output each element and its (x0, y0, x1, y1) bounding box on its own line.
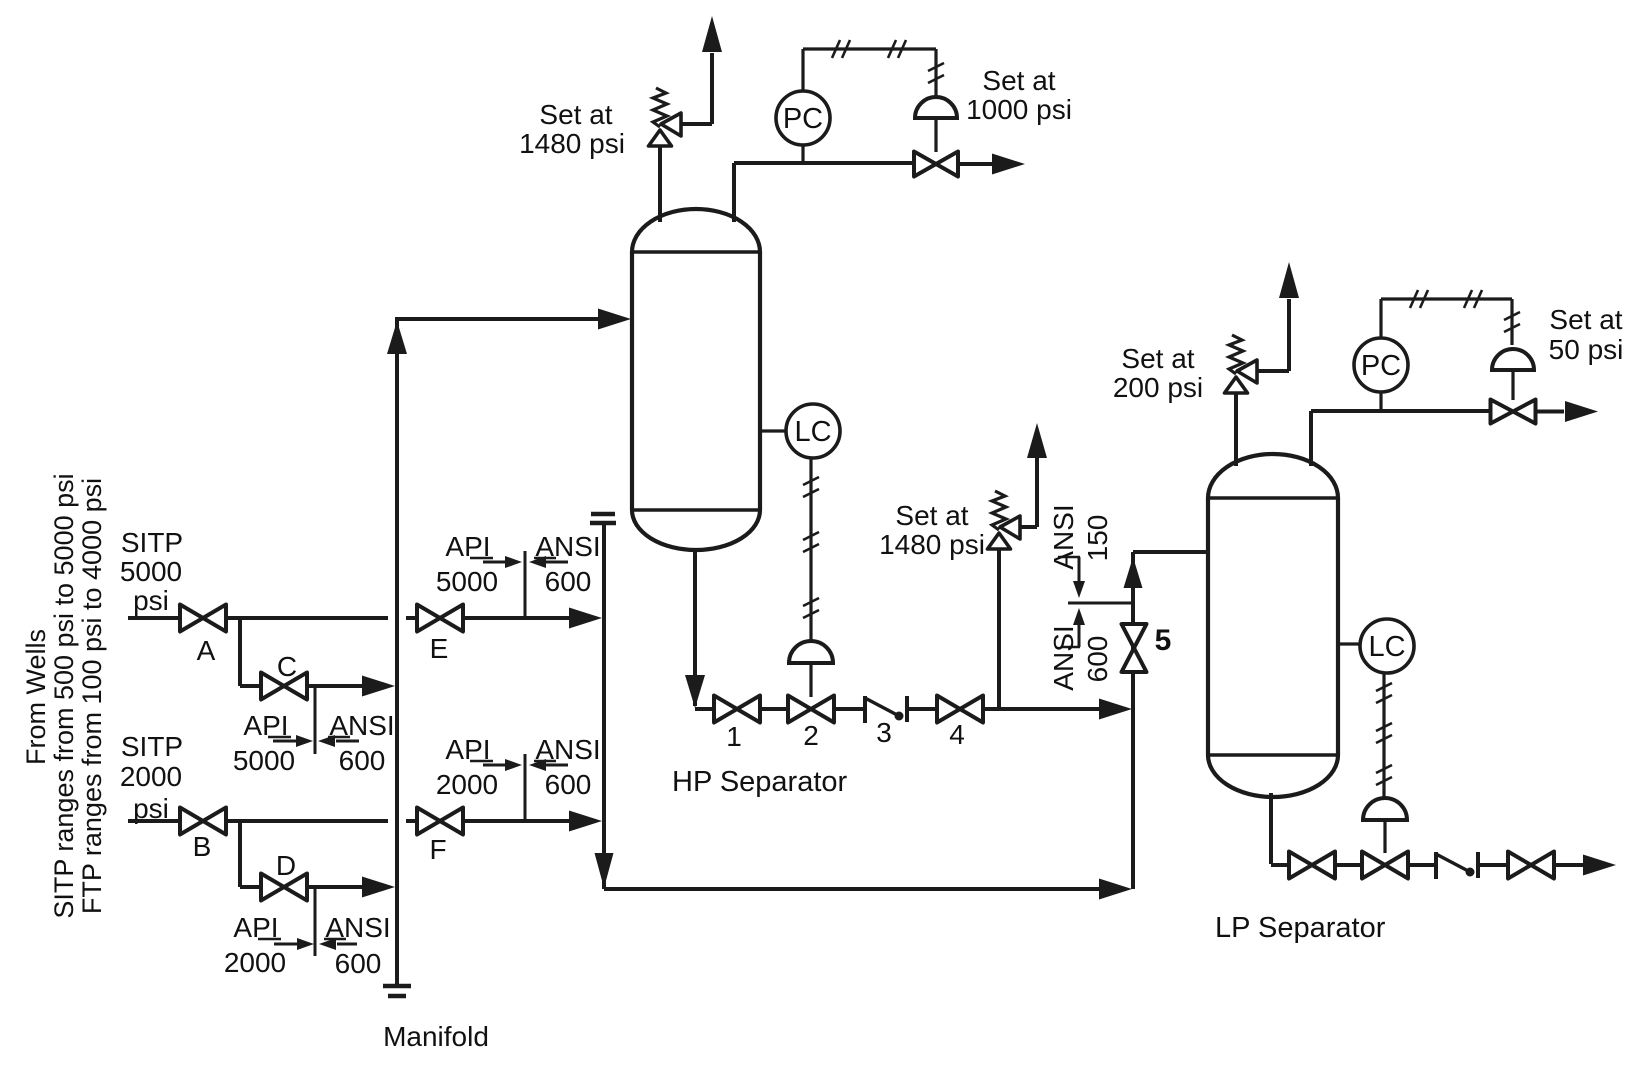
svg-text:3: 3 (876, 717, 892, 748)
instrument LC (LP) (1360, 619, 1414, 673)
svg-text:5: 5 (1155, 624, 1172, 657)
wire LP dump valve stem (1383, 820, 1386, 853)
svg-text:FTP ranges from 100 psi to 400: FTP ranges from 100 psi to 4000 psi (77, 478, 107, 914)
vessel LP separator (1208, 454, 1338, 797)
signal PC to control valve (LP) (1381, 290, 1520, 345)
actuator dome control valve 1000psi (915, 97, 957, 118)
flow arrow up on manifold (387, 321, 407, 354)
wire valve2 stem (809, 663, 812, 697)
wire PSV outlet vent 2 (1020, 423, 1047, 527)
label A (197, 635, 216, 666)
valve LP block 2 (1508, 852, 1554, 879)
svg-text:Set at: Set at (1549, 304, 1622, 335)
svg-text:E: E (430, 633, 449, 664)
label 2 (803, 720, 819, 751)
svg-text:F: F (429, 834, 446, 865)
svg-text:ANSI: ANSI (325, 912, 390, 943)
signal LC to LP dump valve (1376, 673, 1392, 799)
wire E to header with arrow (463, 608, 602, 629)
label Manifold (383, 1021, 489, 1052)
svg-text:5000: 5000 (233, 745, 295, 776)
wire manifold to HP separator inlet (397, 309, 631, 330)
wire lp1-lp2 (1335, 863, 1363, 867)
wire branch to valve D (240, 819, 262, 887)
svg-text:LC: LC (794, 416, 831, 448)
wire HP liquid outlet (685, 548, 714, 709)
wire LP gas outlet (1311, 411, 1493, 466)
wire LP liquid outlet (1271, 793, 1289, 865)
flow arrow up on riser (1124, 557, 1143, 588)
label 1 (726, 721, 742, 752)
wire PSV LP outlet vent (1257, 262, 1299, 371)
instrument LC (HP) (786, 404, 840, 458)
wire actuator stem LP (1511, 370, 1514, 400)
actuator dome control valve 50psi (1492, 349, 1534, 370)
wire inlet A (128, 616, 180, 620)
svg-text:600: 600 (545, 769, 592, 800)
label Set at 200 psi (1113, 343, 1203, 403)
spec break E API5000/ANSI600 (436, 531, 601, 618)
wire LC tap HP (760, 429, 786, 432)
svg-text:ANSI: ANSI (535, 531, 600, 562)
wire inlet B (128, 819, 180, 823)
valve F (417, 808, 463, 835)
svg-text:psi: psi (133, 585, 169, 616)
valve D (261, 874, 307, 901)
svg-text:Set at: Set at (1121, 343, 1194, 374)
svg-text:SITP: SITP (121, 527, 183, 558)
wire actuator stem (934, 118, 937, 152)
wire D to manifold with arrow (306, 877, 395, 898)
label 3 (876, 717, 892, 748)
wire lp2-choke (1408, 863, 1435, 867)
flow arrow down on header (595, 853, 614, 888)
svg-text:PC: PC (1361, 350, 1401, 382)
pipe riser to LP separator (1131, 552, 1135, 889)
svg-text:ANSI: ANSI (1048, 625, 1079, 690)
valve 4 (937, 696, 983, 723)
valve A (180, 605, 226, 632)
label 5 (1155, 624, 1172, 657)
svg-text:API: API (445, 734, 490, 765)
svg-text:150: 150 (1082, 515, 1113, 562)
svg-text:B: B (193, 831, 212, 862)
label SITP 2000 psi (120, 731, 183, 824)
relief valve PSV HP (649, 88, 682, 146)
manifold bottom cap (383, 986, 411, 996)
wire PC tap (801, 145, 804, 163)
spec break F API2000/ANSI600 (436, 734, 601, 821)
label Set at 1480 psi (flowline PSV) (879, 500, 985, 560)
spec break C API5000/ANSI600 (233, 686, 395, 776)
wire manifold to valve F (406, 819, 417, 823)
actuator dome LP dump valve (1363, 798, 1407, 820)
control valve HP gas (914, 152, 958, 177)
svg-text:600: 600 (339, 745, 386, 776)
wire HP gas to sales with arrow (958, 154, 1025, 175)
svg-text:2000: 2000 (436, 769, 498, 800)
wire 2-3 (834, 707, 864, 711)
svg-text:ANSI: ANSI (329, 710, 394, 741)
actuator dome valve 2 (789, 641, 833, 663)
svg-text:SITP ranges from 500 psi to 50: SITP ranges from 500 psi to 5000 psi (49, 473, 79, 918)
label D (276, 850, 296, 881)
svg-text:2: 2 (803, 720, 819, 751)
svg-text:A: A (197, 635, 216, 666)
svg-text:2000: 2000 (120, 761, 182, 792)
spec break D API2000/ANSI600 (224, 887, 391, 979)
label Set at 1480 psi (HP PSV) (519, 99, 625, 159)
instrument PC (LP) (1354, 338, 1408, 392)
label Set at 50 psi (1549, 304, 1624, 365)
label E (430, 633, 449, 664)
label C (277, 651, 297, 682)
label B (193, 831, 212, 862)
signal PC to control valve (HP) (803, 40, 944, 97)
svg-text:1480 psi: 1480 psi (879, 529, 985, 560)
svg-text:LP Separator: LP Separator (1215, 912, 1386, 944)
valve 1 (714, 696, 760, 723)
wire 1-2 (760, 707, 788, 711)
wire 3-4 (907, 707, 938, 711)
wire A to manifold (226, 616, 388, 620)
svg-text:ANSI: ANSI (1048, 504, 1079, 569)
svg-text:5000: 5000 (120, 556, 182, 587)
wire LP liquid to tank with arrow (1554, 855, 1616, 876)
choke valve 3 (865, 696, 907, 723)
control valve LP dump (1362, 852, 1408, 879)
wire 4 to LP riser with arrow (983, 699, 1132, 720)
svg-text:Set at: Set at (539, 99, 612, 130)
manifold header pipe (395, 317, 399, 984)
relief valve riser (after valve 4) (997, 549, 1001, 709)
wire C to manifold with arrow (306, 676, 395, 697)
wire choke-lp3 (1478, 863, 1508, 867)
wire LC tap LP (1338, 642, 1360, 645)
label 4 (949, 719, 965, 750)
svg-text:API: API (233, 912, 278, 943)
test header top cap (590, 514, 616, 523)
valve 2 (control) (788, 696, 834, 723)
valve 5 (1122, 624, 1147, 672)
spec break ANSI150/ANSI600 at valve 5 (1048, 504, 1131, 690)
wire HP gas outlet (734, 163, 915, 222)
wire riser to LP separator inlet (1133, 550, 1208, 554)
svg-text:API: API (243, 710, 288, 741)
wire manifold to valve E (406, 616, 417, 620)
svg-text:API: API (445, 531, 490, 562)
label SITP 5000 psi (120, 527, 183, 616)
svg-text:HP Separator: HP Separator (672, 766, 848, 798)
relief valve PSV 1480 (flowline) (988, 491, 1021, 549)
svg-text:Set at: Set at (982, 65, 1055, 96)
label LP Separator (1215, 912, 1386, 944)
wire F to header with arrow (463, 811, 602, 832)
svg-text:SITP: SITP (121, 731, 183, 762)
svg-text:600: 600 (335, 948, 382, 979)
svg-text:ANSI: ANSI (535, 734, 600, 765)
svg-text:5000: 5000 (436, 566, 498, 597)
svg-text:600: 600 (545, 566, 592, 597)
wire PSV HP outlet to vent (681, 16, 722, 124)
svg-text:LC: LC (1368, 631, 1405, 663)
choke valve LP (1436, 852, 1478, 879)
valve B (180, 808, 226, 835)
relief valve inlet riser (HP top) (658, 146, 662, 222)
label Set at 1000 psi (966, 65, 1072, 125)
svg-text:600: 600 (1082, 636, 1113, 683)
svg-text:PC: PC (783, 103, 823, 135)
relief valve PSV LP (1225, 335, 1258, 393)
rotated note: From Wells / SITP-FTP ranges (21, 473, 107, 918)
svg-text:Manifold: Manifold (383, 1021, 489, 1052)
svg-text:200 psi: 200 psi (1113, 372, 1203, 403)
wire branch to valve C (240, 616, 262, 686)
signal LC to valve 2 (803, 458, 819, 642)
svg-text:50 psi: 50 psi (1549, 334, 1624, 365)
relief valve inlet riser (LP) (1234, 393, 1238, 466)
svg-text:From Wells: From Wells (21, 629, 51, 765)
valve E (417, 605, 463, 632)
wire LP gas to sales with arrow (1535, 401, 1598, 422)
vessel HP separator (632, 209, 760, 550)
wire header to LP inlet riser (604, 879, 1132, 900)
control valve LP gas (1491, 400, 1536, 424)
svg-text:4: 4 (949, 719, 965, 750)
svg-text:1: 1 (726, 721, 742, 752)
svg-text:C: C (277, 651, 297, 682)
test header pipe (capped top) (602, 524, 606, 889)
valve LP block 1 (1289, 852, 1335, 879)
svg-text:1480 psi: 1480 psi (519, 128, 625, 159)
wire PC tap LP (1379, 392, 1382, 411)
svg-text:1000 psi: 1000 psi (966, 94, 1072, 125)
instrument PC (HP) (776, 91, 830, 145)
valve C (261, 673, 307, 700)
svg-text:2000: 2000 (224, 947, 286, 978)
svg-text:D: D (276, 850, 296, 881)
label F (429, 834, 446, 865)
label HP Separator (672, 766, 848, 798)
svg-text:Set at: Set at (895, 500, 968, 531)
wire B to manifold (226, 819, 388, 823)
